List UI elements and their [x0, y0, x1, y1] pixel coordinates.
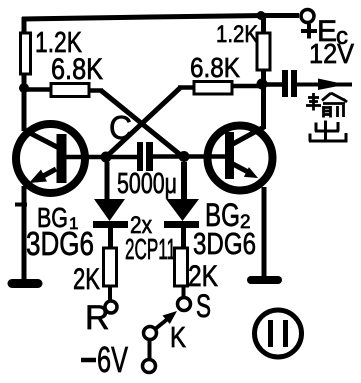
svg-text:12V: 12V: [309, 38, 354, 69]
svg-text:R: R: [85, 299, 110, 337]
svg-text:5000μ: 5000μ: [117, 168, 177, 200]
svg-text:3DG6: 3DG6: [26, 225, 94, 262]
svg-text:K: K: [170, 322, 187, 354]
svg-text:6.8K: 6.8K: [51, 53, 103, 86]
svg-text:6V: 6V: [97, 339, 128, 380]
svg-text:C: C: [109, 109, 132, 146]
svg-text:6.8K: 6.8K: [190, 52, 240, 83]
svg-text:1.2K: 1.2K: [216, 21, 258, 48]
svg-text:3DG6: 3DG6: [193, 226, 256, 261]
svg-text:S: S: [196, 288, 211, 324]
svg-text:2CP11: 2CP11: [125, 234, 176, 266]
svg-text:2K: 2K: [73, 263, 100, 296]
